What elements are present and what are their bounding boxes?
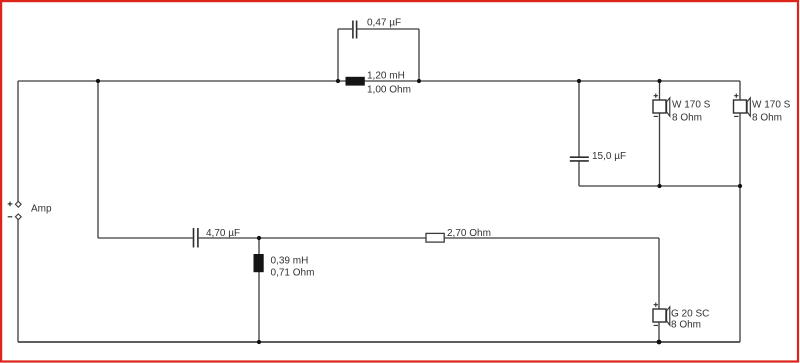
node junction top rail / LS1: [657, 79, 661, 83]
node junction bottom rail / LS3: [657, 340, 662, 345]
svg-text:0,47 µF: 0,47 µF: [367, 18, 401, 29]
svg-text:G 20 SC: G 20 SC: [671, 309, 709, 320]
wire G20SC bottom lead: [658, 322, 660, 342]
Amp terminal + diamond: [15, 201, 21, 207]
speaker LS2 - sign: [734, 115, 738, 117]
speaker LS2 W 170 S box: [734, 100, 747, 113]
svg-text:8 Ohm: 8 Ohm: [752, 112, 782, 123]
svg-text:Amp: Amp: [31, 204, 52, 215]
capacitor C1 0,47 uF plates: [353, 21, 357, 39]
node junction L1 right: [417, 79, 421, 83]
svg-text:W 170 S: W 170 S: [752, 100, 791, 111]
svg-text:8 Ohm: 8 Ohm: [671, 320, 701, 331]
wire top rail right segment: [419, 80, 740, 82]
wire node B down to L2: [258, 238, 260, 254]
wire midrange branch to C2: [98, 237, 193, 239]
wire top rail left segment: [18, 80, 338, 82]
wire right vertical to bottom rail: [739, 186, 741, 342]
svg-text:0,39 mH: 0,39 mH: [271, 256, 309, 267]
wire speaker return rail: [579, 185, 740, 187]
wire C1 loop right vertical: [418, 29, 420, 81]
node junction return rail / LS2: [738, 184, 742, 188]
wire R1 corner down to G20SC: [658, 238, 660, 309]
capacitor C3 15,0 uF plates: [570, 157, 589, 161]
wire node A vertical (top rail to midrange branch): [97, 81, 99, 238]
svg-text:0,71 Ohm: 0,71 Ohm: [271, 268, 315, 279]
wire C2 to node B: [199, 237, 426, 239]
speaker LS1 - sign: [654, 115, 658, 117]
speaker LS3 cone: [667, 307, 670, 325]
wire C1 loop top left segment: [338, 28, 352, 30]
svg-text:8 Ohm: 8 Ohm: [672, 112, 702, 123]
svg-text:4,70 µF: 4,70 µF: [206, 228, 240, 239]
speaker LS1 cone: [667, 98, 670, 116]
capacitor C2 4,70 uF plates: [194, 228, 198, 248]
Amp terminal - diamond: [15, 214, 21, 220]
speaker LS2 + sign: [734, 94, 738, 98]
wire speaker LS1 bottom lead: [659, 113, 661, 186]
svg-text:1,20 mH: 1,20 mH: [367, 71, 405, 82]
speaker LS3 G 20 SC box: [653, 309, 666, 322]
Amp - sign: [8, 216, 13, 218]
wire speaker LS2 top lead: [739, 81, 741, 100]
inductor L2 0,39 mH body: [254, 254, 264, 272]
wire C3 top lead: [578, 81, 580, 157]
svg-text:W 170 S: W 170 S: [672, 100, 711, 111]
wire C1 loop left vertical: [337, 29, 339, 81]
wire node B to R1: [444, 237, 659, 239]
svg-text:15,0 µF: 15,0 µF: [592, 151, 626, 162]
node junction L1 left: [336, 79, 340, 83]
svg-text:2,70 Ohm: 2,70 Ohm: [447, 228, 491, 239]
speaker LS2 cone: [747, 98, 750, 116]
wire bottom rail: [18, 341, 740, 343]
wire speaker LS2 bottom lead: [739, 113, 741, 186]
wire top rail middle segment (through L1): [338, 80, 419, 82]
resistor R1 2,70 Ohm body: [426, 233, 444, 242]
speaker LS1 W 170 S box: [653, 100, 666, 113]
node junction top rail / C3: [577, 79, 581, 83]
node junction top rail / midrange branch: [96, 79, 100, 83]
wire left vertical upper (to Amp +): [17, 81, 19, 202]
Amp + sign: [8, 202, 13, 207]
svg-text:1,00 Ohm: 1,00 Ohm: [367, 85, 411, 96]
node junction return rail / LS1: [657, 184, 661, 188]
wire speaker LS1 top lead: [659, 81, 661, 100]
wire left vertical lower (from Amp -): [17, 220, 19, 343]
wire C3 bottom lead: [578, 162, 580, 186]
speaker LS3 + sign: [654, 303, 658, 307]
wire L2 down to bottom rail: [258, 272, 260, 342]
wire C1 loop top right segment: [357, 28, 419, 30]
speaker LS1 + sign: [654, 94, 658, 98]
node junction C2 / L2: [257, 236, 261, 240]
speaker LS3 - sign: [654, 324, 658, 326]
inductor L1 1,20 mH body: [346, 77, 365, 86]
node junction bottom rail / L2: [257, 340, 261, 344]
